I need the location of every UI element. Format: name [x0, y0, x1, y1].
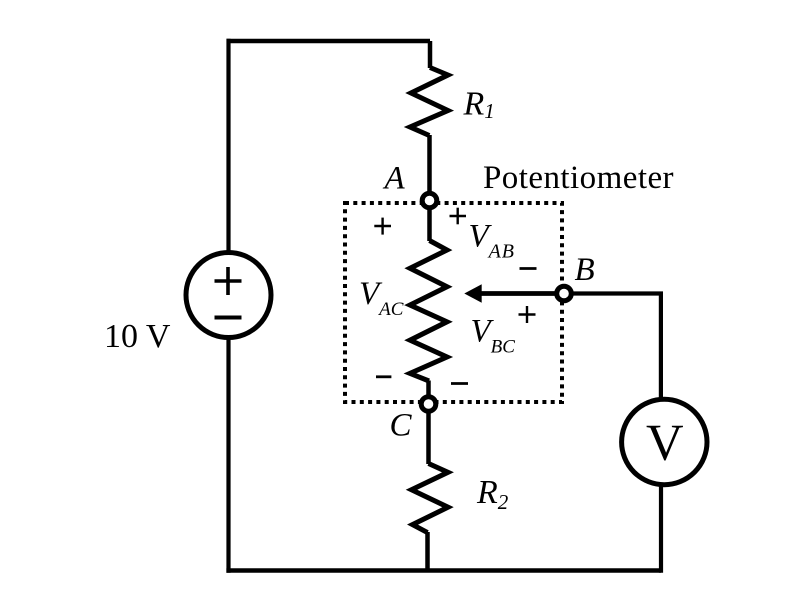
voltage source V1 — [186, 253, 271, 338]
label A — [383, 161, 406, 197]
resistor R1 — [410, 41, 448, 196]
voltmeter label V — [646, 415, 684, 472]
svg-text:A: A — [383, 161, 406, 197]
node B — [557, 286, 572, 301]
label C — [390, 408, 413, 444]
minus sign (VAC -) bottom left — [376, 375, 391, 378]
label Potentiometer — [483, 160, 674, 196]
label R2 — [476, 474, 509, 514]
svg-text:V: V — [646, 415, 684, 472]
resistor R2 — [412, 410, 449, 572]
voltmeter circle — [622, 399, 707, 484]
svg-text:10 V: 10 V — [104, 318, 171, 355]
svg-text:Potentiometer: Potentiometer — [483, 160, 674, 196]
svg-text:C: C — [390, 408, 413, 444]
potentiometer box (dotted) — [345, 203, 562, 402]
label VAB — [469, 219, 515, 263]
plus sign (VAB +) right of node A — [450, 208, 467, 225]
node C — [421, 397, 436, 412]
node A — [422, 193, 437, 208]
wire node B to voltmeter — [571, 294, 661, 401]
plus sign (VAC +) top left — [374, 218, 391, 235]
minus sign (VBC -) bottom middle — [451, 382, 468, 385]
label VAC — [359, 276, 404, 320]
plus sign (VBC +) below node B wire — [519, 306, 536, 323]
wire top horizontal (battery to R1) — [227, 39, 431, 44]
wire left vertical upper (top to battery) — [226, 39, 230, 254]
minus sign (VAB -) — [520, 267, 537, 270]
label B — [575, 252, 595, 288]
svg-text:B: B — [575, 252, 595, 288]
wire bottom horizontal — [226, 568, 661, 573]
label 10 V — [104, 318, 171, 355]
potentiometer resistive element — [410, 200, 447, 398]
label R1 — [463, 86, 495, 124]
minus sign inside source — [215, 316, 242, 320]
wire voltmeter to bottom — [659, 484, 663, 573]
label VBC — [471, 314, 516, 358]
plus sign inside source — [215, 267, 242, 295]
wiper arrow (from node B into pot) — [464, 284, 564, 303]
wire left vertical lower (battery to bottom) — [226, 336, 230, 573]
